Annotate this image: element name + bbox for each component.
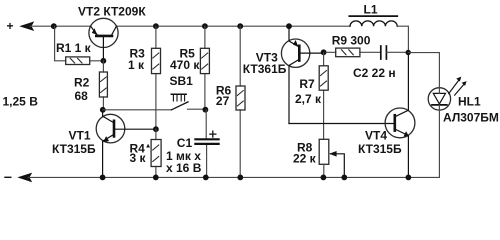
node bottom R4	[153, 175, 159, 181]
svg-text:27: 27	[216, 94, 230, 108]
svg-text:R9 300: R9 300	[332, 34, 371, 48]
label HL1	[443, 95, 499, 125]
label R6	[216, 84, 232, 109]
node bottom VT1 emitter	[100, 175, 106, 181]
node top rail VT3 emitter	[286, 23, 292, 29]
svg-text:L1: L1	[364, 3, 378, 17]
label VT2	[78, 5, 146, 19]
capacitor C2	[381, 46, 408, 59]
node bottom R6	[237, 175, 243, 181]
label VT4	[358, 129, 402, 157]
node top rail R6	[237, 23, 243, 29]
svg-text:1,25 В: 1,25 В	[3, 95, 39, 109]
resistor R9	[326, 48, 380, 57]
resistor R8 trimmer	[319, 139, 344, 177]
minus terminal	[5, 176, 11, 178]
node bottom C1	[203, 175, 209, 181]
inductor L1	[349, 16, 408, 53]
wire VT3 collector to VT4 base	[289, 123, 394, 125]
svg-text:R7: R7	[299, 77, 315, 91]
wire bottom rail	[28, 176, 439, 178]
node L1/C2/VT4 collector/HL1	[406, 50, 411, 55]
label R5	[170, 47, 200, 73]
node top rail R5	[202, 23, 208, 29]
label C1	[166, 136, 202, 175]
svg-text:VT2 КТ209К: VT2 КТ209К	[78, 5, 146, 19]
resistor R6	[236, 26, 245, 177]
resistor R4	[151, 129, 161, 177]
node VT3 base/R7/R9	[321, 49, 327, 55]
node SB1/R5/C1	[203, 107, 209, 113]
output arrow bottom	[17, 173, 32, 183]
wire node to LED	[408, 53, 439, 88]
label R3	[128, 47, 145, 73]
node top rail R1 branch	[51, 23, 57, 29]
LED HL1	[428, 77, 466, 178]
switch SB1	[171, 94, 203, 110]
resistor R2	[99, 61, 107, 110]
svg-text:3 к: 3 к	[130, 151, 147, 165]
label R8	[293, 141, 317, 166]
svg-text:2,7 к: 2,7 к	[295, 92, 322, 106]
label SB1	[170, 74, 194, 88]
transistor VT2	[89, 18, 118, 61]
node R3/VT1 base/R4	[153, 126, 159, 132]
switch SB1 wire left	[103, 109, 172, 111]
node R1/VT2 base/R2	[101, 58, 107, 64]
label C2	[353, 66, 396, 80]
svg-text:КТ361Б: КТ361Б	[243, 62, 287, 76]
svg-text:АЛ307БМ: АЛ307БМ	[443, 111, 499, 125]
label R1	[56, 41, 92, 55]
node bottom VT4 emitter	[406, 175, 412, 181]
input arrow top	[19, 21, 34, 31]
svg-text:HL1: HL1	[458, 95, 481, 109]
transistor VT3	[281, 26, 323, 123]
node bottom R8	[321, 175, 327, 181]
label 1,25 V	[3, 95, 39, 109]
label VT1	[52, 129, 96, 157]
transistor VT4	[385, 53, 415, 178]
transistor VT1	[96, 110, 156, 178]
label VT3	[243, 51, 287, 77]
resistor R7	[319, 52, 328, 139]
svg-text:SB1: SB1	[170, 74, 194, 88]
svg-text:VT1: VT1	[69, 129, 91, 143]
svg-text:+: +	[7, 19, 14, 33]
label R9	[332, 34, 371, 48]
svg-text:R1 1 к: R1 1 к	[56, 41, 92, 55]
resistor R5	[200, 26, 209, 110]
resistor R1	[55, 26, 104, 64]
svg-text:VT4: VT4	[365, 129, 387, 143]
node bottom R8 wiper	[341, 175, 347, 181]
capacitor C1	[195, 110, 218, 178]
node R2/VT1 collector/SB1 wire	[100, 107, 106, 113]
wire top rail left	[30, 25, 91, 27]
svg-text:КТ315Б: КТ315Б	[52, 142, 96, 156]
svg-text:КТ315Б: КТ315Б	[358, 142, 402, 156]
svg-text:68: 68	[75, 89, 89, 103]
svg-text:1 к: 1 к	[128, 58, 145, 72]
plus terminal	[7, 19, 14, 33]
svg-text:C2 22 н: C2 22 н	[353, 66, 396, 80]
svg-text:x 16 В: x 16 В	[166, 161, 202, 175]
svg-text:C1: C1	[177, 136, 193, 150]
node top rail R3	[153, 23, 159, 29]
label L1	[364, 3, 378, 17]
svg-text:R2: R2	[74, 76, 90, 90]
label R4	[130, 142, 152, 166]
svg-text:22 к: 22 к	[293, 151, 317, 165]
wire top rail right of VT2	[116, 25, 350, 27]
label R7	[295, 77, 322, 106]
resistor R3	[152, 26, 161, 129]
label R2	[74, 76, 90, 104]
svg-text:470 к: 470 к	[170, 58, 200, 72]
